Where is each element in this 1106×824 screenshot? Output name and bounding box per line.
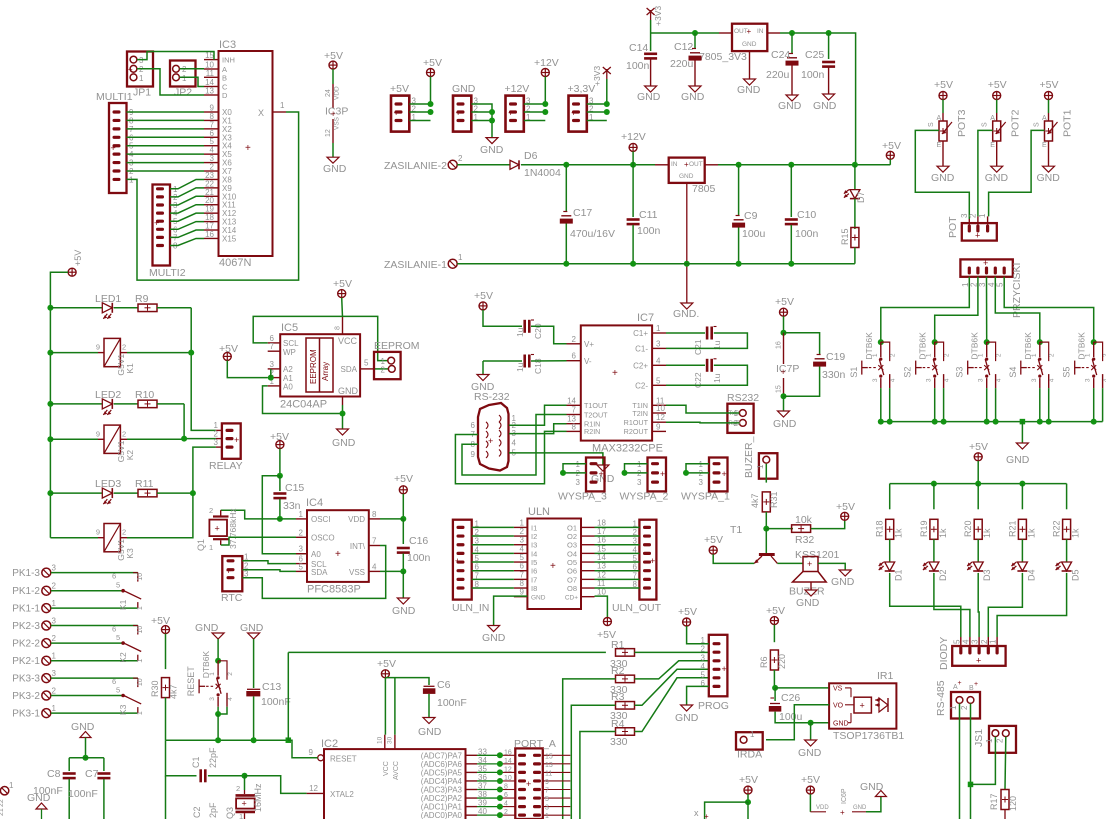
wire	[279, 449, 281, 476]
svg-text:S: S	[928, 122, 935, 127]
+12V symbol	[621, 131, 646, 151]
svg-text:JS1: JS1	[973, 729, 985, 747]
junction	[251, 737, 257, 743]
capacitor C2 22pF labels	[192, 802, 218, 818]
svg-text:R9: R9	[135, 293, 149, 305]
svg-text:15: 15	[545, 753, 553, 760]
svg-text:2: 2	[139, 65, 144, 74]
svg-text:ULN: ULN	[528, 506, 550, 518]
wire	[666, 333, 747, 348]
capacitor C8 100nF	[33, 758, 76, 819]
wire	[127, 145, 205, 147]
svg-text:IN: IN	[671, 161, 678, 168]
svg-text:8: 8	[372, 510, 377, 519]
svg-text:IC3: IC3	[219, 39, 236, 51]
svg-text:K3: K3	[125, 548, 135, 559]
svg-text:+5V: +5V	[377, 658, 396, 670]
IC6P power pins symbol	[810, 788, 867, 817]
junction	[808, 720, 814, 726]
svg-text:+5V: +5V	[801, 774, 820, 786]
svg-text:2: 2	[996, 353, 1003, 357]
wire	[242, 561, 296, 564]
svg-text:1: 1	[182, 74, 187, 83]
svg-text:C9: C9	[744, 210, 758, 222]
wire	[380, 570, 403, 572]
junction	[630, 261, 636, 267]
IC2 PA pins	[421, 747, 488, 820]
junction	[215, 737, 221, 743]
svg-text:1k: 1k	[894, 528, 904, 538]
wire	[262, 476, 307, 554]
junction	[975, 481, 981, 487]
connector BUZER_	[743, 436, 777, 478]
svg-text:2: 2	[52, 634, 57, 643]
wire	[483, 360, 522, 362]
junction	[489, 118, 495, 124]
wire	[165, 776, 167, 819]
wire	[385, 678, 429, 685]
wire	[666, 364, 705, 366]
svg-text:+: +	[807, 559, 812, 569]
+5V symbol bottom bracket	[739, 774, 758, 794]
svg-text:+: +	[840, 808, 845, 817]
junction	[968, 782, 974, 788]
wire	[483, 310, 522, 326]
svg-text:T2IN: T2IN	[632, 409, 648, 418]
wire	[595, 552, 640, 554]
LED LED2	[50, 389, 121, 415]
junction	[692, 30, 698, 36]
svg-text:2: 2	[209, 506, 213, 515]
svg-text:T1OUT: T1OUT	[584, 401, 608, 410]
svg-text:+: +	[860, 701, 865, 711]
svg-text:+: +	[508, 108, 513, 118]
resistor R4 330	[610, 718, 635, 748]
svg-text:R3: R3	[611, 691, 625, 703]
svg-text:4067N: 4067N	[219, 257, 251, 269]
IC5 SDA pin	[360, 359, 374, 369]
wire	[165, 698, 167, 741]
wire	[606, 79, 608, 104]
svg-text:100n: 100n	[795, 228, 819, 240]
svg-text:GND: GND	[833, 721, 849, 728]
svg-text:4: 4	[944, 378, 951, 382]
svg-text:+5V: +5V	[934, 79, 953, 91]
wire	[773, 670, 775, 688]
wire	[775, 687, 828, 689]
svg-text:PK3-2: PK3-2	[12, 691, 40, 702]
svg-text:24: 24	[325, 89, 332, 97]
svg-text:2: 2	[969, 213, 978, 218]
wire	[227, 360, 267, 377]
svg-text:WYSPA_2: WYSPA_2	[620, 491, 669, 503]
wire	[666, 332, 705, 334]
junction	[1019, 481, 1025, 487]
svg-text:5: 5	[116, 581, 120, 590]
wire	[69, 757, 104, 759]
svg-text:VDD: VDD	[334, 86, 341, 100]
svg-text:1: 1	[139, 74, 144, 83]
svg-text:C26: C26	[781, 692, 800, 704]
svg-text:IC7P: IC7P	[776, 363, 799, 375]
svg-text:PRZYCISKI: PRZYCISKI	[1011, 263, 1023, 318]
svg-text:+: +	[154, 218, 159, 228]
svg-text:X15: X15	[222, 234, 237, 243]
svg-text:C2-: C2-	[635, 382, 648, 391]
wire	[184, 404, 216, 439]
ULN pins	[514, 518, 607, 596]
svg-text:10: 10	[504, 775, 512, 782]
wire	[881, 277, 970, 342]
svg-text:V+: V+	[584, 340, 594, 349]
svg-text:9: 9	[545, 779, 549, 786]
svg-text:2pF: 2pF	[208, 802, 218, 818]
svg-text:MULTI2: MULTI2	[149, 267, 186, 279]
IR receiver IR1 TSOP1736TB1	[829, 670, 904, 742]
svg-text:D2: D2	[938, 569, 948, 581]
svg-text:16: 16	[776, 341, 783, 349]
svg-text:IC2: IC2	[321, 738, 338, 750]
svg-text:1: 1	[209, 543, 213, 552]
wire	[977, 573, 980, 637]
junction	[684, 261, 690, 267]
capacitor C17 470u/16V	[560, 165, 615, 264]
IC5 GND pin	[342, 397, 344, 406]
svg-text:1: 1	[280, 101, 285, 110]
svg-text:E: E	[990, 142, 995, 149]
wire switch ground bus	[881, 421, 1103, 423]
wire	[811, 520, 845, 528]
svg-text:T1: T1	[730, 524, 742, 536]
capacitor C13 100nF	[246, 681, 290, 708]
wire	[970, 704, 972, 820]
GND symbol switch bus	[1006, 422, 1030, 466]
svg-text:4: 4	[961, 639, 970, 644]
GND symbol T1 right	[831, 570, 855, 588]
svg-text:1k: 1k	[1071, 528, 1081, 538]
junction	[542, 101, 548, 107]
resistor R15	[840, 199, 859, 264]
junction	[83, 755, 89, 761]
svg-text:Q1: Q1	[196, 539, 206, 551]
wire	[595, 535, 640, 537]
7805 OUT pin stub	[705, 164, 718, 166]
resistor R9	[114, 293, 157, 312]
capacitor C19 330n	[784, 333, 846, 397]
svg-text:GND: GND	[679, 173, 694, 180]
junction	[781, 330, 787, 336]
wire	[531, 360, 567, 362]
junction	[277, 473, 283, 479]
GND symbol C6	[418, 718, 442, 739]
wire	[51, 695, 122, 697]
wire	[127, 170, 205, 172]
svg-text:K1: K1	[125, 363, 135, 374]
junction	[268, 375, 274, 381]
connector MULTI2	[149, 185, 186, 280]
svg-text:7: 7	[545, 788, 549, 795]
svg-text:9: 9	[96, 429, 100, 438]
wire	[959, 704, 961, 820]
wire	[342, 405, 344, 429]
svg-text:+: +	[111, 143, 116, 153]
svg-text:1: 1	[985, 738, 994, 743]
relay contact K3	[112, 677, 144, 715]
svg-text:1: 1	[52, 652, 57, 661]
capacitor C7 100nF	[68, 758, 110, 819]
svg-text:EEPROM: EEPROM	[309, 349, 318, 384]
svg-text:4: 4	[512, 438, 517, 447]
wire	[521, 164, 655, 166]
svg-text:3: 3	[872, 378, 879, 382]
svg-text:100u: 100u	[742, 228, 766, 240]
wire	[472, 578, 514, 580]
svg-text:R11: R11	[135, 478, 154, 490]
svg-text:10k: 10k	[795, 514, 813, 526]
IC3P power pins symbol	[323, 50, 348, 175]
wire	[180, 68, 205, 70]
wire	[217, 714, 219, 740]
GND symbol C18	[471, 375, 495, 394]
connector WYSPA_1	[681, 458, 730, 503]
svg-text:GND: GND	[195, 622, 219, 634]
svg-text:DTB6K: DTB6K	[918, 332, 928, 360]
svg-text:VDD: VDD	[348, 515, 365, 524]
resistor R2 330	[610, 665, 635, 696]
svg-text:+: +	[704, 812, 709, 819]
wire	[380, 518, 403, 520]
capacitor C16 100n	[397, 519, 431, 572]
svg-text:14: 14	[504, 758, 512, 765]
svg-text:SDA: SDA	[341, 365, 358, 374]
svg-text:15: 15	[205, 51, 214, 60]
resistor R30 4k7	[150, 678, 179, 699]
svg-text:POT2: POT2	[1010, 109, 1022, 137]
svg-text:+5V: +5V	[73, 250, 83, 266]
resistor R31 4k7	[750, 491, 779, 511]
svg-text:+5V: +5V	[394, 473, 413, 485]
junction	[772, 685, 778, 691]
svg-text:R2: R2	[611, 665, 625, 677]
wire	[471, 111, 492, 113]
wire	[170, 213, 204, 221]
svg-text:22pF: 22pF	[208, 747, 218, 768]
wire	[170, 238, 204, 245]
svg-text:10: 10	[137, 573, 144, 581]
svg-text:PK2-1: PK2-1	[12, 656, 40, 667]
wire	[986, 277, 988, 342]
wire	[50, 272, 68, 538]
svg-text:7805_3V3: 7805_3V3	[699, 51, 747, 63]
wire	[127, 136, 205, 138]
svg-text:1u: 1u	[515, 327, 525, 337]
svg-text:VSS: VSS	[349, 568, 365, 577]
svg-text:+5V: +5V	[766, 605, 785, 617]
terminal PK2-3	[12, 617, 56, 633]
junction	[745, 799, 751, 805]
GND symbol IC6P	[860, 781, 886, 797]
svg-text:PK1-1: PK1-1	[12, 604, 40, 615]
svg-text:1: 1	[239, 812, 243, 819]
+5V symbol C20	[474, 290, 493, 310]
svg-text:ZASILANIE-2: ZASILANIE-2	[384, 160, 447, 172]
svg-text:GND: GND	[675, 712, 699, 724]
wire	[783, 396, 785, 411]
svg-text:10: 10	[137, 626, 144, 634]
wire	[595, 578, 640, 580]
wire	[394, 678, 396, 735]
svg-text:R2OUT: R2OUT	[624, 427, 649, 436]
svg-text:+: +	[526, 779, 531, 789]
svg-text:R21: R21	[1007, 520, 1017, 537]
svg-text:PROG: PROG	[698, 700, 729, 712]
svg-text:13: 13	[597, 562, 606, 571]
junction	[47, 490, 53, 496]
svg-text:C15: C15	[285, 482, 304, 494]
terminal PK1-1	[12, 599, 56, 615]
wire	[747, 802, 749, 819]
svg-text:4k7: 4k7	[169, 684, 179, 699]
svg-text:K2: K2	[125, 450, 135, 461]
GND symbol IC7P	[773, 411, 797, 430]
PORT_A right pins	[543, 753, 571, 820]
svg-text:ULN_IN: ULN_IN	[452, 602, 489, 614]
wire	[509, 405, 567, 425]
relay contact K2	[112, 625, 144, 663]
junction	[604, 101, 610, 107]
svg-text:+: +	[974, 681, 978, 688]
wire	[509, 424, 567, 434]
svg-text:R4: R4	[611, 718, 625, 730]
svg-text:+: +	[958, 680, 962, 687]
pushbutton RESET DTB6K	[186, 651, 234, 714]
GND symbol IC5	[332, 429, 356, 449]
capacitor C24	[766, 33, 802, 112]
svg-text:4: 4	[890, 378, 897, 382]
svg-text:DTB6K: DTB6K	[201, 651, 211, 679]
regulator IC1 7805	[669, 158, 716, 195]
wire	[1004, 737, 1007, 789]
wire	[635, 651, 709, 653]
svg-text:VSS: VSS	[334, 116, 341, 130]
svg-text:PK1-3: PK1-3	[12, 568, 40, 579]
svg-text:D1: D1	[894, 569, 904, 581]
+5V symbol R32	[836, 501, 855, 520]
svg-text:3: 3	[576, 478, 581, 487]
LED LED1	[50, 293, 121, 319]
+5V symbol left bus	[68, 250, 83, 276]
connector WYSPA_2	[620, 458, 669, 503]
svg-text:C24: C24	[771, 49, 790, 61]
svg-text:220: 220	[777, 654, 787, 669]
svg-text:GND: GND	[1006, 454, 1030, 466]
wire	[430, 77, 432, 105]
svg-text:C2: C2	[192, 806, 202, 818]
svg-text:4: 4	[227, 697, 234, 701]
svg-text:ULN_OUT: ULN_OUT	[612, 602, 662, 614]
LED D2	[923, 539, 948, 581]
svg-text:GND.: GND.	[673, 308, 699, 320]
svg-text:11: 11	[597, 579, 606, 588]
svg-text:O7: O7	[567, 575, 577, 584]
svg-text:1N4004: 1N4004	[524, 167, 561, 179]
svg-text:1k: 1k	[1026, 528, 1036, 538]
IC2 RESET pin	[309, 748, 324, 761]
capacitor C21 1u	[693, 327, 722, 356]
svg-text:3: 3	[52, 617, 57, 626]
svg-text:3: 3	[299, 545, 304, 554]
wire	[253, 639, 255, 688]
speaker BUZER KSS1201	[789, 549, 840, 598]
805_3V3 OUT pin stub	[719, 32, 732, 34]
svg-text:R22: R22	[1052, 520, 1062, 537]
wire	[127, 162, 205, 164]
connector +12V	[505, 83, 532, 132]
IC7 MAX3232CPE body	[581, 312, 663, 455]
connector RS232	[727, 392, 759, 433]
svg-text:I7: I7	[531, 575, 537, 584]
svg-text:C1: C1	[191, 756, 201, 768]
svg-text:B: B	[222, 73, 227, 82]
svg-text:JP1: JP1	[133, 87, 151, 99]
capacitor C14	[626, 33, 661, 103]
junction	[622, 470, 628, 476]
junction	[489, 109, 495, 115]
junction	[788, 261, 794, 267]
junction	[542, 109, 548, 115]
wire	[524, 120, 546, 122]
svg-text:18: 18	[597, 518, 606, 527]
connector PORT_A	[514, 738, 556, 819]
svg-text:5: 5	[545, 796, 549, 803]
svg-text:C21: C21	[693, 339, 703, 355]
capacitor C11	[627, 165, 661, 264]
svg-text:A0: A0	[283, 383, 293, 392]
wire	[890, 573, 961, 637]
svg-text:C1+: C1+	[633, 329, 648, 338]
wire	[221, 537, 296, 545]
svg-text:OSCI: OSCI	[311, 515, 331, 524]
svg-text:+12V: +12V	[621, 131, 646, 143]
DB9 pins	[471, 414, 517, 459]
wire	[934, 573, 970, 637]
capacitor C15 33n	[273, 476, 304, 519]
svg-text:GND: GND	[681, 91, 705, 103]
+5V symbol C16	[394, 473, 413, 494]
svg-text:7: 7	[270, 342, 275, 351]
terminal PK1-3	[12, 564, 56, 580]
wire reset rail	[166, 739, 289, 741]
pushbutton S3 DTB6K	[955, 332, 1003, 422]
terminal X2	[0, 781, 14, 816]
svg-text:INT\: INT\	[350, 542, 366, 551]
svg-text:I5: I5	[531, 558, 537, 567]
+5V symbol IC7P	[775, 296, 794, 316]
wire LED +5V bus	[890, 483, 1067, 485]
svg-text:A2: A2	[283, 365, 293, 374]
junction	[878, 419, 884, 425]
svg-text:7: 7	[572, 406, 577, 415]
wire	[180, 77, 205, 86]
wire	[632, 151, 634, 164]
svg-text:GND: GND	[773, 418, 797, 430]
wire	[191, 308, 216, 431]
svg-text:C7: C7	[85, 768, 99, 780]
junction	[931, 481, 937, 487]
svg-text:O6: O6	[567, 567, 577, 576]
crystal Q1 32.768kHz	[196, 506, 280, 552]
junction	[188, 350, 194, 356]
